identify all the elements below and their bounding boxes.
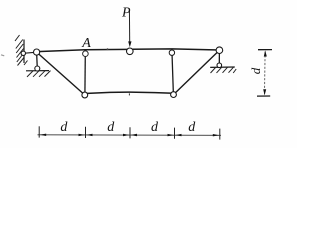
load P arrow [128,9,131,48]
ground hatch right [211,67,237,73]
svg-text:d: d [107,120,115,135]
dimension vertical right top bar [258,49,272,51]
scan speck below bottom chord [129,93,130,95]
ground hatch left [27,71,51,77]
wall edge left [23,40,25,64]
joint bottom left [82,92,88,98]
ground line right support [210,66,235,68]
joint main left support [34,49,40,55]
svg-text:P: P [121,5,131,20]
svg-text:d: d [248,67,263,74]
pin wall link [21,51,25,55]
ground line left support [26,70,49,72]
joint right support [216,47,223,54]
wire left support link [36,52,39,68]
wire left diagonal member [37,52,85,95]
wire right diagonal member [174,50,220,94]
svg-text:d: d [188,120,196,135]
dimension vertical right bottom bar [257,95,270,97]
wire bottom chord [85,92,174,93]
wall hatch [15,35,28,66]
svg-text:A: A [81,36,91,51]
dimension vertical arrows [263,50,267,95]
dimension ticks bottom [39,126,220,139]
joint mid right top chord [169,50,174,55]
joint bottom right [171,92,177,98]
scan speck left edge [1,54,5,56]
pin left ground [35,66,40,71]
wire right vertical member [172,53,173,95]
pin right ground [217,63,222,68]
scan speck on chord [107,48,109,50]
wire right support link [218,50,220,65]
dimension arrows bottom [40,134,220,137]
joint A [83,51,89,57]
joint under load P [127,48,134,55]
dimension line bottom [38,134,222,137]
wire vertical member at A [84,54,86,95]
svg-text:d: d [60,120,68,135]
dimension vertical shaft [264,52,267,95]
wire top chord [34,49,219,52]
svg-text:d: d [151,120,159,135]
wire wall link [23,52,36,53]
